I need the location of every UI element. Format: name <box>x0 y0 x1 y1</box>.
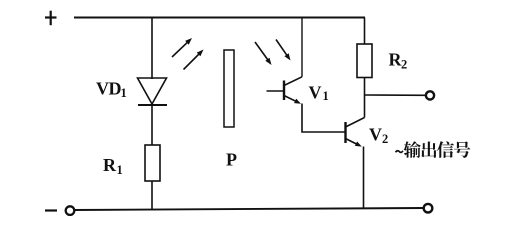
svg-text:V: V <box>369 125 382 145</box>
svg-text:2: 2 <box>382 132 388 146</box>
terminal circle output upper <box>426 91 434 99</box>
node + (positive supply) <box>45 11 57 26</box>
svg-text:VD: VD <box>96 79 121 99</box>
wire bottom rail <box>75 208 424 210</box>
wire output tap <box>365 94 426 96</box>
svg-text:P: P <box>226 150 237 170</box>
wire top rail to R2 <box>364 18 366 45</box>
LED VD1 <box>138 78 168 105</box>
svg-text:V: V <box>309 83 322 103</box>
wire V1 emitter to V2 base <box>302 104 346 133</box>
svg-text:1: 1 <box>121 86 127 100</box>
svg-text:R: R <box>103 155 117 175</box>
terminal circle output lower <box>424 204 433 213</box>
svg-text:2: 2 <box>401 58 407 72</box>
light arrow 1 to V1 <box>255 42 269 61</box>
phototransistor V1 <box>267 77 303 104</box>
resistor R1 <box>145 145 160 181</box>
wire V1 collector to top rail <box>301 18 303 77</box>
wire VD1 cathode to R1 <box>151 104 153 145</box>
wire R1 to bottom rail <box>151 181 153 210</box>
light arrow 2 to V1 <box>276 40 288 57</box>
resistor R2 <box>357 44 372 78</box>
wire R2 to V2 collector <box>364 78 366 118</box>
light emission arrow 1 from VD1 <box>172 41 188 57</box>
terminal circle left <box>66 206 75 215</box>
transistor V2 <box>346 118 365 147</box>
svg-text:1: 1 <box>117 163 123 177</box>
light emission arrow 2 from VD1 <box>184 53 201 70</box>
plate P (light shutter) <box>224 50 234 127</box>
label output signal (~输出信号) <box>396 141 471 158</box>
wire VD1 anode branch <box>151 18 153 80</box>
wire top supply rail <box>74 17 365 19</box>
node - (negative supply) <box>45 209 57 211</box>
svg-text:1: 1 <box>323 89 329 103</box>
wire V2 emitter to bottom rail <box>363 147 365 209</box>
